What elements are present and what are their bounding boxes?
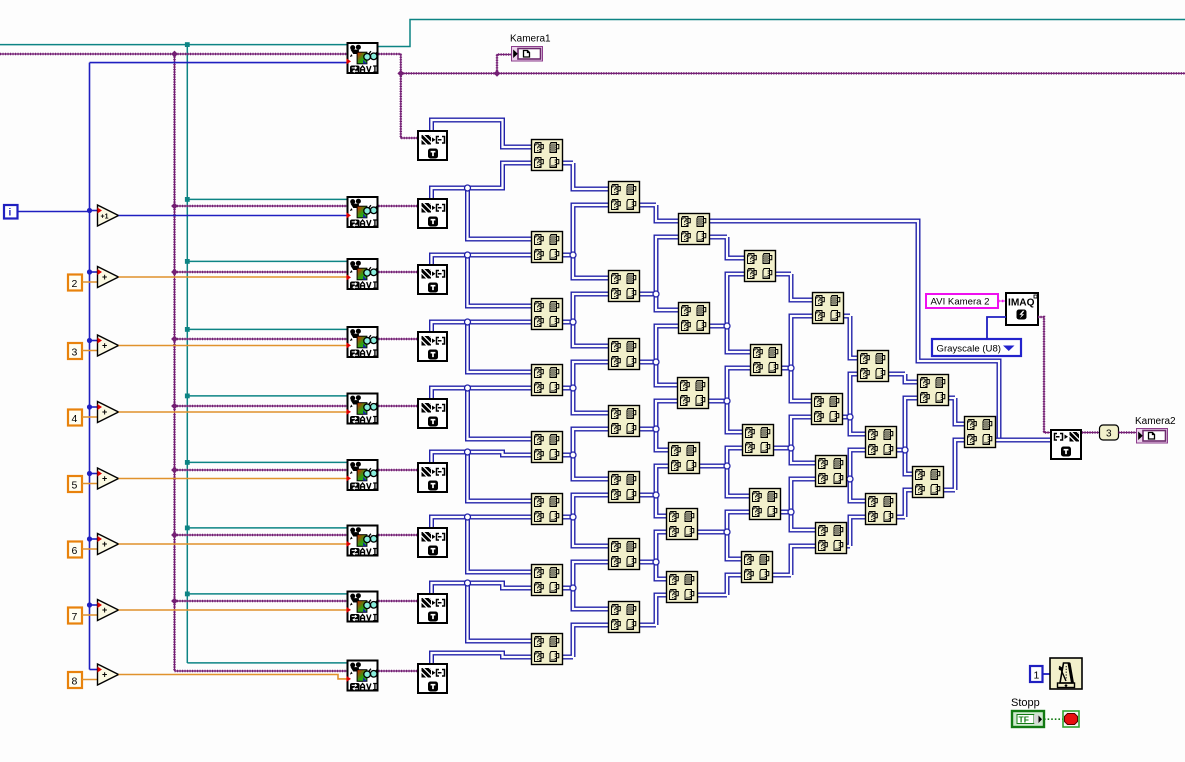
wire purple branch to AVI3: [175, 271, 347, 273]
wire purple branch to AVI8: [175, 600, 347, 602]
red coercion arrow adder row 4: [97, 404, 102, 410]
Max&Min node D2: [751, 345, 782, 376]
blue junction dot row 3: [87, 338, 92, 343]
blue junction dot row 4: [87, 404, 92, 409]
adder node row 7: [98, 600, 119, 621]
Max&Min node A6: [532, 494, 563, 525]
wire 2D-array E4 min output: [847, 517, 865, 546]
wire i-tap to adder row 7: [90, 604, 98, 606]
red coercion arrow AVI6 frame input: [346, 475, 351, 481]
wire 2D-array A7 min output: [563, 562, 608, 609]
svg-text:AVI Kamera 2: AVI Kamera 2: [931, 297, 990, 308]
blue junction dot row 5: [87, 471, 92, 476]
wire purple IMAQ Create image-ref down to ArrayToImage: [1038, 317, 1050, 433]
wire teal branch to AVI3: [187, 260, 346, 262]
wire purple AVI1 image output trunk: [379, 54, 401, 73]
wire 2D-array A5 min output: [563, 429, 608, 479]
IMAQ ImageToArray node IT3: [418, 265, 447, 294]
wire adder output to AVI8: [119, 609, 347, 611]
svg-text:+: +: [102, 341, 107, 351]
wire 2D-array B1 min output: [640, 205, 678, 221]
AVI read-frame node AVI5: [348, 394, 378, 425]
wire teal vertical rail x=187: [186, 45, 188, 663]
teal junction dot row 2: [185, 197, 190, 202]
wire purple vertical rail x=174.5: [174, 54, 176, 671]
wire 2D-array A2 min output: [563, 205, 608, 278]
array junction circle row5: [465, 385, 471, 391]
wire purple ArrayToImage to numeric 3 box: [1082, 432, 1100, 434]
Max&Min node A8: [532, 634, 563, 665]
Max&Min node C3: [678, 378, 709, 409]
numeric constant 7: [68, 608, 82, 624]
purple junction diamond row 7: [171, 532, 178, 539]
array junction circle row6: [465, 449, 471, 455]
indicator terminal Kamera2: [1137, 429, 1168, 444]
Max&Min node G1: [918, 375, 949, 406]
array junction circle row7: [465, 514, 471, 520]
wire 2D-array B6 min output: [640, 532, 666, 579]
wire i-tap to adder row 4: [90, 406, 98, 408]
IMAQ ImageToArray node IT6: [418, 463, 447, 492]
terminal i (loop index): [4, 205, 18, 219]
wire 2D-array D4 min output: [781, 479, 815, 530]
numeric constant 1 (ms multiple): [1030, 666, 1043, 682]
red coercion arrow adder row 1: [97, 208, 102, 214]
AVI read-frame node AVI9: [348, 661, 378, 692]
numeric constant 5: [68, 476, 82, 492]
AVI read-frame node AVI2: [348, 197, 378, 228]
wire 2D-array E1 min output: [844, 316, 857, 358]
wire 2D-array C5 min output: [698, 512, 749, 559]
wire 2D-array D2 min output: [782, 316, 812, 401]
array junction circle B2: [653, 291, 659, 297]
wire blue 1 to Wait node: [1043, 673, 1051, 675]
Max&Min node A3: [532, 299, 563, 330]
wire i-tap to adder row 8: [90, 669, 98, 671]
Max&Min node E3: [816, 456, 847, 487]
IMAQ ImageToArray node IT8: [418, 594, 447, 623]
wire 2D-array C2 min output: [710, 274, 750, 352]
wire purple AVI7 to ImageToArray7: [379, 534, 418, 536]
IMAQ ImageToArray node IT5: [418, 399, 447, 428]
array junction circle A4: [570, 385, 576, 391]
wire 2D-array A6 min output: [563, 495, 608, 546]
array junction circle row2: [465, 185, 471, 191]
wire label numeric 3: [1100, 425, 1119, 440]
Max&Min node D5: [742, 552, 773, 583]
numeric constant 8: [68, 672, 82, 688]
wire magenta string to IMAQ Create: [998, 300, 1006, 302]
red coercion arrow AVI3 frame input: [346, 274, 351, 280]
svg-text:5: 5: [72, 480, 78, 492]
wire 2D-array B2 min output: [640, 237, 678, 310]
IMAQ ImageToArray node IT1: [418, 131, 447, 160]
wire purple branch to AVI9: [175, 670, 347, 672]
wire purple AVI4 to ImageToArray4: [379, 338, 418, 340]
wire 2D-array row4 branches to A3 and A4: [432, 322, 532, 372]
adder node row 5: [98, 468, 119, 489]
Wait Until Next ms Multiple node (metronome): [1050, 658, 1082, 689]
array junction circle C5: [724, 529, 730, 535]
red coercion arrow AVI7 frame input: [346, 541, 351, 547]
AVI read-frame node AVI6: [348, 460, 378, 491]
red coercion arrow adder row 7: [97, 602, 102, 608]
Max&Min node C6: [667, 572, 698, 603]
IMAQ ImageToArray node IT7: [418, 528, 447, 557]
blue junction dot row 2: [87, 269, 92, 274]
Max&Min node C5: [667, 509, 698, 540]
AVI read-frame node AVI4: [348, 327, 378, 358]
wire purple long horizontal y=73 to right edge: [401, 72, 1185, 74]
wire green boolean dotted to stop terminal: [1044, 718, 1063, 720]
wire orange constant 7 to adder: [82, 614, 99, 616]
svg-text:3: 3: [72, 347, 78, 359]
svg-text:+: +: [102, 272, 107, 282]
wire 2D-array C6 min output: [698, 575, 741, 595]
svg-text:7: 7: [72, 611, 78, 623]
numeric constant 4: [68, 410, 82, 426]
wire purple AVI8 to ImageToArray8: [379, 600, 418, 602]
wire 2D-array row9 to A8 bottom: [432, 653, 532, 663]
string constant AVI Kamera 2: [926, 294, 998, 308]
wire purple AVI3 to ImageToArray3: [379, 271, 418, 273]
Max&Min node C2: [679, 303, 710, 334]
wire blue i-wire from terminal to vertical rail: [17, 211, 90, 213]
array junction circle A5: [570, 452, 576, 458]
wire purple branch to AVI4: [175, 338, 347, 340]
array junction circle E3: [847, 476, 853, 482]
wire 2D-array row5 branches to A4 and A5: [432, 388, 532, 439]
wire 2D-array A3 min output: [563, 294, 608, 346]
red coercion arrow adder row 5: [97, 471, 102, 477]
array junction circle row4: [465, 319, 471, 325]
teal junction dot top rail: [185, 42, 190, 47]
array junction circle A3: [570, 319, 576, 325]
red coercion arrow AVI5 frame input: [346, 409, 351, 415]
Max&Min node B1: [609, 182, 640, 213]
wire purple branch to AVI6: [175, 469, 347, 471]
blue junction dot row 7: [87, 602, 92, 607]
array junction circle B5: [653, 492, 659, 498]
wire blue Grayscale to IMAQ Create: [987, 317, 1006, 339]
svg-text:+1: +1: [101, 213, 109, 220]
wire purple AVI9 to ImageToArray9: [379, 670, 418, 672]
Max&Min node C4: [669, 443, 700, 474]
Max&Min node B3: [609, 339, 640, 370]
wire 2D-array F3 min output: [897, 490, 912, 517]
AVI read-frame node AVI3: [348, 259, 378, 290]
wire i-tap to adder row 5: [90, 473, 98, 475]
wire 2D-array row3 branches to A2 and A3: [432, 255, 532, 306]
wire purple branch to AVI5: [175, 405, 347, 407]
wire 2D-array C4 min output: [700, 448, 749, 496]
teal junction dot row 6: [185, 460, 190, 465]
array junction circle C4: [724, 463, 730, 469]
svg-text:2: 2: [72, 278, 78, 290]
array junction circle D2: [788, 365, 794, 371]
wire 2D-array B5 min output: [640, 466, 668, 516]
purple junction diamond row 4: [171, 336, 178, 343]
purple junction diamond row 5: [171, 403, 178, 410]
wire 2D-array A4 min output: [563, 362, 608, 413]
Max&Min node A7: [532, 565, 563, 596]
wire orange constant 5 to adder: [82, 483, 99, 485]
Max&Min node A1: [532, 140, 563, 171]
svg-text:Stopp: Stopp: [1011, 697, 1040, 709]
wire 2D-array C3 min output: [709, 368, 750, 432]
red coercion arrow AVI1 frame input: [346, 58, 351, 64]
numeric constant 6: [68, 542, 82, 558]
wire purple AVI2 to ImageToArray2: [379, 205, 418, 207]
svg-text:+: +: [102, 605, 107, 615]
wire teal branch to AVI4: [187, 328, 346, 330]
purple junction diamond at Kamera1 branch: [494, 70, 501, 77]
wire teal branch to AVI9: [187, 662, 346, 664]
Max&Min node D1: [745, 251, 776, 282]
wire adder output to AVI3: [119, 276, 347, 278]
wire teal branch to AVI5: [187, 395, 346, 397]
purple junction diamond at trunk split: [397, 70, 404, 77]
wire 2D-array A1 min output: [563, 163, 608, 189]
svg-text:Kamera1: Kamera1: [510, 34, 551, 45]
svg-text:i: i: [9, 208, 12, 219]
purple junction diamond top rail: [171, 51, 178, 58]
svg-text:4: 4: [72, 413, 78, 425]
wire adder output to AVI6: [119, 478, 347, 480]
array junction circle D4: [788, 509, 794, 515]
Max&Min node F1: [858, 351, 889, 382]
svg-text:8: 8: [72, 676, 78, 688]
wire blue i top branch to AVI1 frame input: [90, 62, 347, 64]
wire adder output to AVI5: [119, 411, 347, 413]
wire 2D-array H min output to ArrayToImage: [996, 438, 1050, 443]
wire 2D-array B3 min output: [640, 326, 678, 385]
wire 2D-array F1 min output: [889, 374, 917, 382]
svg-text:IMAQ: IMAQ: [1008, 298, 1035, 309]
numeric constant 3: [68, 343, 82, 359]
array junction circle B4: [653, 426, 659, 432]
wire i-tap to adder row 2: [90, 271, 98, 273]
red coercion arrow AVI4 frame input: [346, 342, 351, 348]
wire 2D-array row6 branches to A5 and A6: [432, 452, 532, 501]
wire 2D-array F2 min output: [897, 398, 917, 474]
wire 2D-array C1 max long route to ArrayToImage: [710, 221, 999, 439]
Max&Min node F2: [866, 427, 897, 458]
Max&Min node H1 (final): [965, 417, 996, 448]
wire adder output to AVI7: [119, 543, 347, 545]
teal junction dot row 5: [185, 394, 190, 399]
svg-text:1: 1: [1034, 670, 1040, 682]
wire orange constant 6 to adder: [82, 548, 99, 550]
array junction circle C2: [724, 323, 730, 329]
purple junction diamond row 2: [171, 203, 178, 210]
Max&Min node E2: [812, 394, 843, 425]
red coercion arrow adder row 2: [97, 269, 102, 275]
wire 2D-array B7 min output: [640, 595, 666, 625]
indicator terminal Kamera1: [512, 47, 543, 62]
array junction circle C3: [724, 398, 730, 404]
wire purple branch to AVI2: [175, 205, 347, 207]
wire 2D-array row8 branches to A7 and A8: [432, 583, 532, 641]
svg-text:+: +: [102, 474, 107, 484]
adder node row 4: [98, 402, 119, 423]
wire orange constant 8 to adder: [82, 679, 99, 681]
wire 2D-array B4 min output: [640, 401, 677, 450]
Max&Min node A5: [532, 432, 563, 463]
svg-text:3: 3: [1106, 429, 1112, 440]
red coercion arrow adder row 3: [97, 338, 102, 344]
wire i-tap to adder row 6: [90, 538, 98, 540]
wire teal camera-refnum rail from left edge to AVI1: [0, 44, 347, 46]
wire 2D-array row2 branches to A1 and A2: [432, 163, 532, 239]
red coercion arrow AVI2 frame input: [346, 212, 351, 218]
wire blue i vertical rail x=89.5: [89, 63, 91, 670]
svg-text:6: 6: [72, 545, 78, 557]
teal junction dot row 3: [185, 259, 190, 264]
svg-text:+: +: [102, 407, 107, 417]
wire purple 3 box to Kamera2 indicator: [1119, 432, 1137, 434]
wire 2D-array D5 min output: [773, 546, 815, 575]
wire adder output to AVI4: [119, 345, 347, 347]
wire 2D-array D3 min output: [774, 417, 815, 463]
array junction circle B6: [653, 559, 659, 565]
array junction circle row3: [465, 252, 471, 258]
wire adder output to AVI9: [119, 675, 347, 679]
adder node row 1 (+1 increment): [98, 205, 119, 226]
Max&Min node B6: [609, 539, 640, 570]
red coercion arrow AVI8 frame input: [346, 607, 351, 613]
Max&Min node G2: [913, 467, 944, 498]
adder node row 6: [98, 534, 119, 555]
red coercion arrow adder row 8: [97, 667, 102, 673]
wire 2D-array A8 min output: [563, 625, 608, 657]
IMAQ ArrayToImage node: [1051, 428, 1084, 459]
Max&Min node D4: [750, 489, 781, 520]
wire orange constant 3 to adder: [82, 350, 99, 352]
array junction circle A6: [570, 514, 576, 520]
purple junction diamond row 6: [171, 467, 178, 474]
wire orange constant 2 to adder: [82, 281, 99, 283]
wire purple AVI5 to ImageToArray5: [379, 405, 418, 407]
wire teal branch to AVI2: [187, 198, 346, 200]
adder node row 8: [98, 664, 119, 685]
adder node row 3: [98, 335, 119, 356]
teal junction dot row 8: [185, 592, 190, 597]
svg-text:Kamera2: Kamera2: [1135, 416, 1176, 427]
Max&Min node E4: [816, 523, 847, 554]
AVI read-frame node AVI1: [348, 43, 378, 74]
Max&Min node A4: [532, 365, 563, 396]
numeric constant 2: [68, 275, 82, 291]
red coercion arrow adder row 6: [97, 536, 102, 542]
wire i-tap to adder row 3: [90, 340, 98, 342]
Max&Min node A2: [532, 232, 563, 263]
wire purple branch to AVI7: [175, 534, 347, 536]
Max&Min node B5: [609, 472, 640, 503]
purple junction diamond row 3: [171, 269, 178, 276]
wire purple AVI6 to ImageToArray6: [379, 469, 418, 471]
wire teal branch to AVI6: [187, 461, 346, 463]
svg-text:TF: TF: [1019, 715, 1029, 725]
wire 2D-array E3 min output: [847, 450, 865, 501]
wire purple branch down to ImageToArray1: [401, 73, 417, 138]
blue junction dot row 6: [87, 536, 92, 541]
boolean control terminal Stopp (TF): [1012, 711, 1044, 727]
wire teal AVI1 output to top right edge: [379, 20, 1185, 47]
AVI read-frame node AVI8: [348, 592, 378, 623]
array junction circle row8: [465, 580, 471, 586]
array junction circle E2: [847, 414, 853, 420]
Max&Min node B2: [609, 271, 640, 302]
Max&Min node B7: [609, 602, 640, 633]
Max&Min node D3: [743, 425, 774, 456]
ring constant Grayscale (U8): [932, 339, 1021, 356]
svg-text:+: +: [102, 539, 107, 549]
wire 2D-array row1 to MaxMin A1 top: [432, 120, 532, 147]
wire 2D-array G1 min output: [949, 398, 964, 424]
wire teal branch to AVI8: [187, 593, 346, 595]
wire orange constant 4 to adder: [82, 416, 99, 418]
svg-text:Grayscale (U8): Grayscale (U8): [937, 343, 1002, 354]
teal junction dot row 4: [185, 327, 190, 332]
array junction circle A2: [570, 252, 576, 258]
IMAQ ImageToArray node IT2: [418, 199, 447, 228]
wire teal branch to AVI7: [187, 527, 346, 529]
wire 2D-array C1 min output: [710, 237, 744, 258]
array junction circle B3: [653, 359, 659, 365]
wire 2D-array G2 min output: [944, 440, 964, 490]
wire purple branch up to Kamera1 indicator: [497, 55, 511, 74]
wire 2D-array row7 branches to A6 and A7: [432, 517, 532, 572]
purple junction diamond row 8: [171, 598, 178, 605]
wire adder output to AVI2: [119, 215, 347, 217]
Max&Min node E1: [813, 293, 844, 324]
IMAQ ImageToArray node IT9: [418, 664, 447, 693]
wire purple image rail from left edge to AVI1: [0, 53, 347, 55]
IMAQ ImageToArray node IT4: [418, 332, 447, 361]
svg-text:+: +: [102, 670, 107, 680]
wire 2D-array E2 min output: [843, 374, 865, 434]
array junction circle F2: [902, 447, 908, 453]
array junction circle A7: [570, 585, 576, 591]
IMAQ Create node U1: [1006, 293, 1038, 325]
teal junction dot row 7: [185, 526, 190, 531]
blue junction dot row 1: [87, 208, 92, 213]
adder node row 2: [98, 267, 119, 288]
AVI read-frame node AVI7: [348, 526, 378, 557]
Max&Min node F3: [866, 494, 897, 525]
Max&Min node C1: [679, 214, 710, 245]
red coercion arrow AVI9 frame input: [346, 676, 351, 682]
wire i-tap to adder row 1: [90, 210, 98, 212]
wire 2D-array D1 min output: [776, 274, 812, 300]
loop stop condition terminal (red octagon): [1063, 711, 1079, 727]
array junction circle D3: [788, 445, 794, 451]
Max&Min node B4: [609, 406, 640, 437]
